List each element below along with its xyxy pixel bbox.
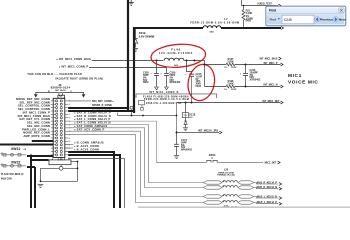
svg-text:NP0/0402: NP0/0402 (170, 81, 181, 84)
zener diode DZ19 (135, 29, 137, 39)
svg-text:Find: Find (269, 9, 276, 13)
svg-text:1/16W: 1/16W (231, 89, 237, 91)
common-mode choke filter (203, 181, 222, 184)
wire SPKRS_L_CONN thick (68, 110, 135, 112)
svg-text:NOI_DET_CONN »: NOI_DET_CONN » (92, 100, 114, 103)
svg-text:MLB_R_KELVI_N: MLB_R_KELVI_N (257, 186, 278, 189)
ESD chain 2 (1, 165, 26, 167)
svg-text:SPKRS_L_CONN: SPKRS_L_CONN (92, 108, 112, 111)
svg-text:XW22: XW22 (11, 161, 20, 165)
microphone jack (58, 158, 64, 160)
wire fan 3 (68, 131, 203, 196)
connector XW21 body (58, 95, 65, 98)
svg-text:1%: 1% (224, 67, 227, 69)
wire INT_MIC2 column (176, 103, 178, 133)
ground (130, 0, 132, 2)
resistor R21 (243, 6, 245, 11)
svg-text:C1: C1 (70, 91, 72, 93)
svg-text:NP0/0402: NP0/0402 (181, 149, 192, 152)
svg-text:1/16W: 1/16W (231, 67, 237, 69)
wire (127, 0, 129, 110)
svg-text:FERR-220-OHM-0.4A-0.6-OHM: FERR-220-OHM-0.4A-0.6-OHM (144, 98, 189, 101)
wire thick bus left vertical 1 (27, 155, 53, 209)
wire fan 4 (68, 135, 203, 203)
svg-text:MLB CON: MLB CON (1, 179, 12, 181)
svg-text:MLB_R_KELVI_P: MLB_R_KELVI_P (257, 181, 278, 184)
svg-text:FERR-1K-OHM: FERR-1K-OHM (218, 172, 233, 174)
connector XW21 pins (56, 100, 58, 102)
svg-text:INT_MIC1_N: INT_MIC1_N (264, 84, 278, 87)
svg-text:DZ18: DZ18 (189, 113, 196, 116)
wire AUDIO_TEST (241, 0, 243, 6)
svg-text:MLB_L_KELVI_N: MLB_L_KELVI_N (257, 195, 277, 198)
net label MLB_L_KELVI_N (254, 197, 279, 199)
resistor R128 (205, 86, 227, 88)
svg-text:MIC1: MIC1 (288, 73, 302, 79)
wire feed to R127 R128 (204, 61, 206, 87)
wire bottom gray bus (138, 206, 350, 208)
wire (118, 115, 177, 117)
svg-text:VOICE MIC: VOICE MIC (288, 79, 318, 85)
red circle around FL49 (150, 43, 206, 70)
wire thick bus right 1 (68, 152, 114, 208)
svg-text:INT_MIC1_P: INT_MIC1_P (264, 62, 278, 65)
svg-text:FERR-13-OHM-0.8A-0.08-OHM: FERR-13-OHM-0.8A-0.08-OHM (190, 21, 239, 24)
net label MLB_R_KELVI_P (254, 183, 279, 185)
common-mode choke filter (203, 195, 222, 198)
svg-text:SPKRS_R_CONN: SPKRS_R_CONN (92, 104, 112, 107)
resistor R127 (205, 64, 227, 66)
svg-text:J2: J2 (211, 158, 213, 160)
wire thick bus right 2 (68, 155, 120, 208)
svg-text:FL49: FL49 (171, 48, 181, 52)
find dialog (266, 6, 346, 26)
wire thick bus left vertical 2 (27, 167, 35, 208)
svg-text:Previous: Previous (320, 18, 333, 22)
wire thick bus left rows (32, 140, 53, 142)
svg-text:Find: Find (270, 18, 276, 22)
wire thick stub (32, 159, 49, 161)
svg-text:C245: C245 (284, 18, 292, 22)
net label MLB_R_KELVI_N (254, 188, 279, 189)
svg-text:Next: Next (339, 18, 346, 22)
connector pin (130, 106, 133, 109)
svg-text:INT_MIC1_DET: INT_MIC1_DET (262, 100, 280, 103)
svg-text:MLB_L_KELVI_P: MLB_L_KELVI_P (257, 201, 277, 204)
ESD chain 1 (1, 154, 26, 156)
ferrite bead FL49 (156, 60, 158, 62)
wire jack loop (41, 167, 60, 169)
wire SPKRS_R_CONN thick (68, 107, 129, 109)
svg-text:MIC2_DET: MIC2_DET (265, 161, 277, 164)
svg-text:XW13: XW13 (209, 154, 216, 157)
wire INT_MIC2A_P (177, 132, 220, 134)
wire fan 1 (68, 124, 203, 182)
svg-text:820840-5124: 820840-5124 (51, 86, 71, 90)
wire fan 2 (68, 128, 203, 188)
red circle around C215 (185, 62, 218, 103)
wire (133, 27, 203, 29)
inductor L7 (203, 26, 221, 28)
svg-text:L20: L20 (224, 169, 229, 172)
capacitor C174 (176, 133, 178, 145)
wire thin bus right (68, 159, 124, 209)
net label MLB_L_KELVI_P (254, 203, 279, 204)
svg-text:L7: L7 (224, 17, 228, 21)
svg-text:0402: 0402 (196, 85, 202, 88)
svg-text:X7R/0402: X7R/0402 (250, 79, 261, 82)
wire fan to MIC2_DET (68, 121, 156, 162)
net label NOI_DET_CONN (68, 100, 91, 102)
ground (38, 183, 44, 185)
zener diode DZ18 (185, 103, 187, 113)
wire INT_MIC1_DET (177, 102, 281, 104)
svg-text:1%: 1% (224, 89, 227, 91)
svg-text:B1: B1 (48, 91, 50, 93)
svg-text:NP0/: NP0/ (143, 81, 149, 84)
svg-text:INT_MIC1_BIAS: INT_MIC1_BIAS (260, 57, 278, 60)
svg-text:2.00K: 2.00K (227, 83, 234, 86)
svg-text:0402: 0402 (246, 20, 252, 23)
svg-text:XW21: XW21 (11, 147, 20, 151)
svg-text:2.00K: 2.00K (227, 61, 234, 64)
